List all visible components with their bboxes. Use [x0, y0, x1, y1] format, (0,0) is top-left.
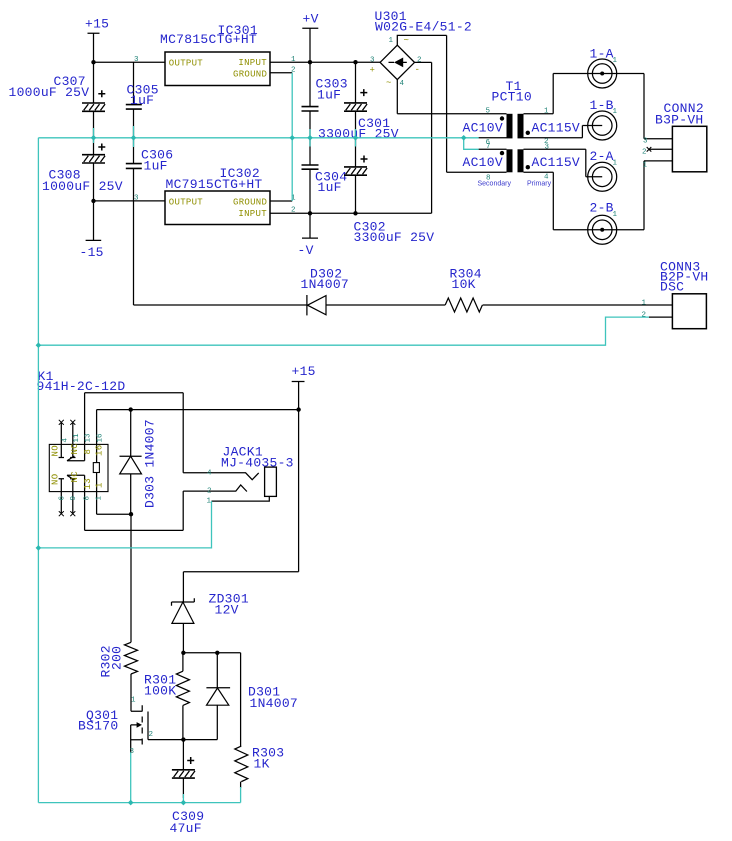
wire teal tick at C303/C304 [309, 129, 311, 147]
svg-text:1uF: 1uF [318, 180, 342, 195]
svg-text:PCT10: PCT10 [492, 90, 532, 105]
svg-text:4: 4 [62, 438, 70, 443]
svg-text:8: 8 [486, 175, 491, 183]
svg-text:+V: +V [303, 12, 319, 27]
wire T1 pin1 to 1-A [524, 74, 645, 114]
connector CONN3 B2P-VH DSC [672, 294, 706, 329]
svg-text:4: 4 [400, 80, 405, 88]
wire T1 pin3 to 2-A [524, 149, 603, 177]
svg-text:2: 2 [417, 57, 422, 65]
svg-text:16: 16 [95, 445, 105, 456]
svg-text:4: 4 [544, 174, 549, 182]
wire IC301 pin3 row [94, 61, 166, 63]
wire teal tick at C307/C308 [93, 128, 95, 143]
wire teal IC301-IC302 ground link [291, 73, 293, 201]
op-amp IC302 MC7915CTG+HT box [165, 191, 270, 225]
wire relay coil bottom to D303 [97, 492, 131, 515]
svg-text:2-A: 2-A [590, 149, 614, 164]
svg-text:+15: +15 [85, 17, 109, 32]
wire U301 pin4 AC to T1 pin5 [397, 80, 506, 114]
zener diode ZD301 12V [172, 598, 195, 606]
wire teal main vertical [37, 138, 39, 803]
svg-text:Secondary: Secondary [478, 181, 512, 188]
svg-text:13: 13 [83, 478, 93, 489]
wire IC302 pin3 row [94, 200, 166, 202]
wire teal branch to CONN3 pin2 [38, 317, 649, 345]
svg-text:1: 1 [131, 697, 136, 705]
resistor R302 200 [130, 514, 132, 642]
wire JACK1 pin4 [183, 473, 259, 480]
svg-text:-: - [415, 65, 421, 75]
svg-text:8: 8 [83, 449, 93, 455]
resistor R303 1K [235, 746, 248, 782]
svg-text:1uF: 1uF [130, 93, 154, 108]
wire relay contact arm top [67, 444, 85, 460]
power +15 bottom [292, 382, 305, 572]
svg-text:1K: 1K [254, 757, 270, 772]
power -15 [86, 201, 102, 241]
TEAL GROUND NET [36, 73, 649, 806]
wire T1 pin7 stub [479, 148, 507, 150]
svg-text:3: 3 [643, 138, 648, 146]
JACK1 [183, 445, 294, 506]
wire relay contact arm bottom [67, 475, 85, 491]
wire teal ground horizontal rail [38, 137, 478, 139]
svg-text:13: 13 [85, 433, 93, 443]
svg-text:-15: -15 [80, 245, 104, 260]
svg-text:1: 1 [643, 162, 648, 170]
svg-text:2: 2 [642, 149, 647, 157]
svg-text:2: 2 [642, 312, 647, 320]
svg-text:1000uF 25V: 1000uF 25V [9, 85, 90, 100]
wire teal bottom rail [38, 802, 240, 804]
wire C306 down to D302 row [133, 168, 135, 305]
svg-text:2: 2 [207, 488, 212, 496]
svg-text:NO: NO [51, 445, 61, 456]
capacitor C303 1uF [302, 107, 319, 111]
svg-text:AC115V: AC115V [532, 121, 581, 136]
svg-text:OUTPUT: OUTPUT [169, 58, 204, 68]
capacitor C308 1000uF 25V [82, 155, 105, 163]
power +V [302, 28, 318, 62]
svg-text:AC10V: AC10V [463, 121, 503, 136]
C309 [170, 740, 205, 836]
svg-text:BS170: BS170 [78, 719, 118, 734]
svg-text:1: 1 [613, 211, 618, 219]
svg-text:1: 1 [642, 300, 647, 308]
svg-text:GROUND: GROUND [233, 197, 267, 207]
node no-connect x marks bottom [59, 511, 76, 516]
wire C301/C302 rail [355, 62, 357, 213]
svg-text:DSC: DSC [660, 279, 684, 294]
svg-text:100K: 100K [144, 684, 176, 699]
wire T1 pin2 to 1-B [524, 126, 603, 138]
svg-text:+: + [370, 66, 376, 76]
wire teal stub C309 bottom [182, 794, 184, 803]
diode D301 1N4007 [216, 653, 218, 688]
svg-text:16: 16 [97, 433, 105, 443]
svg-text:2-B: 2-B [590, 201, 614, 216]
wire teal stub R303 bottom [240, 787, 242, 803]
connector 2-B [588, 215, 617, 244]
wire -V row [270, 212, 432, 214]
svg-text:INPUT: INPUT [238, 209, 267, 219]
wire CONN2 pin2 stub [649, 148, 672, 150]
svg-text:1: 1 [613, 57, 618, 65]
svg-text:GROUND: GROUND [233, 69, 267, 79]
wire CONN2 pin3 link from 1-A [644, 74, 672, 139]
svg-text:AC10V: AC10V [463, 155, 503, 170]
wire teal corner to pin7 [464, 138, 479, 150]
wire IC302 pin1 stub [270, 200, 292, 202]
BRIDGE RECTIFIER U301 [370, 9, 507, 213]
wire T1 pin6 stub [479, 137, 507, 139]
svg-text:~: ~ [404, 36, 410, 46]
wire D302 R304 row [134, 304, 673, 306]
svg-text:1: 1 [613, 108, 618, 116]
svg-text:+15: +15 [292, 364, 316, 379]
svg-text:1: 1 [96, 496, 104, 501]
wire zener node row [183, 653, 240, 746]
CAPACITORS MIDDLE [302, 77, 348, 112]
svg-text:1: 1 [95, 482, 105, 488]
connector 1-A [588, 59, 617, 88]
capacitor C302 3300uF 25V [344, 167, 367, 175]
svg-text:2: 2 [149, 731, 154, 739]
svg-text:9: 9 [70, 496, 78, 501]
node junction dots [91, 60, 95, 64]
CAPACITORS LEFT [9, 74, 106, 111]
wire IC301 pin2 stub [270, 72, 292, 74]
svg-text:1N4007: 1N4007 [301, 277, 350, 292]
svg-text:12V: 12V [215, 603, 239, 618]
TRANSFORMER T1 [447, 74, 644, 230]
wire T1 pin8 stub [447, 171, 507, 173]
svg-text:-V: -V [298, 243, 314, 258]
LEFT RAILS AND WIRES [94, 62, 432, 305]
svg-text:Primary: Primary [527, 181, 552, 188]
svg-text:1000uF 25V: 1000uF 25V [42, 179, 123, 194]
+15 RAIL BOTTOM SECTION [183, 572, 298, 602]
wire teal branch to JACK1 pin1 [38, 501, 211, 548]
wire +15 rail to ZD301 [183, 572, 298, 602]
svg-text:1-B: 1-B [590, 98, 614, 113]
transistor Q301 BS170 [131, 674, 142, 711]
node polarity dots T1 [500, 116, 504, 120]
op-amp IC301 MC7815CTG+HT box [165, 52, 270, 86]
wire relay pin13 to jack pin2 [85, 491, 184, 530]
svg-text:1: 1 [207, 498, 212, 506]
svg-text:8: 8 [84, 496, 92, 501]
node no-connect x marks top [59, 420, 76, 425]
connector 2-A [588, 162, 617, 191]
svg-text:NC: NC [70, 471, 80, 483]
resistor R304 10K [445, 298, 482, 312]
OUTPUT CONNECTORS [588, 47, 618, 89]
svg-text:1N4007: 1N4007 [250, 696, 299, 711]
svg-text:NC: NC [70, 443, 80, 455]
capacitor C306 1uF [126, 164, 142, 169]
wire teal tick at C301/C302 [355, 129, 357, 147]
svg-text:MC7815CTG+HT: MC7815CTG+HT [160, 32, 257, 47]
svg-text:1uF: 1uF [144, 159, 168, 174]
wire U301 pin2 to minus rail [415, 62, 432, 213]
capacitor C301 3300uF 25V [344, 103, 367, 111]
wire JACK1 pin2 [183, 485, 247, 492]
svg-text:7: 7 [486, 143, 491, 151]
wire C305 top [133, 62, 135, 104]
svg-text:941H-2C-12D: 941H-2C-12D [37, 379, 126, 394]
power -V [302, 213, 318, 238]
CONN2 [642, 74, 707, 230]
Q301 MOSFET [78, 674, 217, 756]
svg-text:200: 200 [110, 646, 125, 670]
wire bridge + row [270, 61, 380, 63]
node no-connect x CONN2 pin2 [647, 147, 652, 152]
svg-text:1: 1 [613, 160, 618, 168]
svg-text:4: 4 [207, 470, 212, 478]
wire JACK1 pin1 [212, 496, 270, 501]
svg-text:6: 6 [59, 496, 67, 501]
svg-text:3: 3 [545, 144, 550, 152]
svg-text:~: ~ [386, 78, 392, 88]
svg-text:MJ-4035-3: MJ-4035-3 [221, 456, 294, 471]
wire C305-C306 link [133, 109, 135, 164]
capacitor C307 1000uF 25V [82, 103, 105, 111]
wire CONN3 pin2 stub [649, 316, 672, 318]
svg-text:11: 11 [73, 433, 81, 443]
svg-text:3: 3 [370, 57, 375, 65]
svg-text:10K: 10K [452, 277, 476, 292]
IC302 REGULATOR [134, 166, 296, 225]
wire teal stub Q301 source [130, 753, 132, 803]
capacitor C305 1uF [126, 105, 142, 110]
power +15 top [88, 33, 100, 62]
svg-text:W02G-E4/51-2: W02G-E4/51-2 [375, 20, 472, 35]
svg-text:47uF: 47uF [170, 821, 202, 836]
svg-text:AC115V: AC115V [532, 155, 581, 170]
diode D302 1N4007 [306, 295, 308, 315]
svg-text:MC7915CTG+HT: MC7915CTG+HT [166, 177, 263, 192]
svg-text:1: 1 [389, 37, 394, 45]
diode D303 1N4007 [130, 410, 132, 457]
svg-text:INPUT: INPUT [238, 58, 267, 68]
connector 1-B [588, 111, 617, 140]
svg-text:NO: NO [51, 474, 61, 485]
wire teal tick at C305/C306 [133, 126, 135, 147]
wire left rail x93.5 [93, 62, 95, 201]
relay coil [93, 463, 99, 473]
NODE ROW AND R301/D301/R303 [183, 653, 240, 746]
svg-text:B3P-VH: B3P-VH [655, 113, 704, 128]
wire relay NO/NC stubs top [59, 422, 76, 457]
svg-text:5: 5 [486, 108, 491, 116]
svg-text:3300uF 25V: 3300uF 25V [354, 230, 435, 245]
svg-text:3300uF 25V: 3300uF 25V [318, 127, 399, 142]
RELAY K1 [37, 369, 299, 530]
svg-text:1-A: 1-A [590, 47, 614, 62]
D303 [120, 410, 158, 515]
svg-text:D303 1N4007: D303 1N4007 [143, 419, 158, 508]
POWER SYMBOLS [85, 17, 109, 63]
wire +V rail segments [309, 62, 311, 213]
wire relay pin8 to jack pin4 [85, 393, 184, 473]
connector CONN2 B3P-VH [672, 126, 706, 172]
resistor R301 100K [182, 653, 184, 671]
node teal diamonds at ground junctions [36, 135, 467, 805]
wire T1 pin4 to 2-B [524, 172, 645, 230]
svg-text:OUTPUT: OUTPUT [169, 197, 204, 207]
IC301 REGULATOR [134, 23, 296, 86]
bridge U301 W02G-E4/51-2 [380, 45, 414, 79]
wire U301 pin1 AC to T1 pin8 [397, 35, 446, 172]
D302 / R304 / CONN3 ROW [134, 304, 673, 306]
wire relay NO/NC stubs bottom [59, 479, 76, 514]
capacitor C304 1uF [302, 165, 319, 169]
capacitor C309 47uF [182, 740, 184, 770]
svg-text:1uF: 1uF [317, 88, 341, 103]
wire relay coil top to +15 [97, 410, 299, 445]
ZD301 [172, 592, 249, 653]
wire CONN2 pin1 link to 2-B [644, 161, 672, 230]
